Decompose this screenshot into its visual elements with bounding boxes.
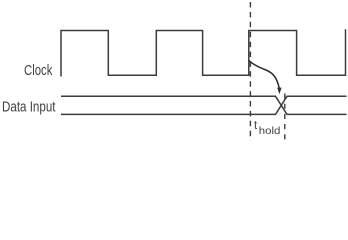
svg-text:t: t bbox=[254, 120, 258, 132]
dashed line at clock edge bbox=[249, 2, 251, 141]
arrowhead bbox=[277, 88, 281, 95]
svg-text:hold: hold bbox=[259, 126, 281, 137]
arrow from clock edge to data transition bbox=[249, 61, 279, 90]
wire data input top line bbox=[61, 96, 347, 114]
wire clock waveform bbox=[61, 29, 346, 76]
svg-text:Data Input: Data Input bbox=[2, 99, 56, 115]
dashed line at data transition bbox=[284, 93, 286, 141]
svg-text:Clock: Clock bbox=[24, 63, 53, 79]
wire data input bottom line bbox=[61, 96, 347, 114]
